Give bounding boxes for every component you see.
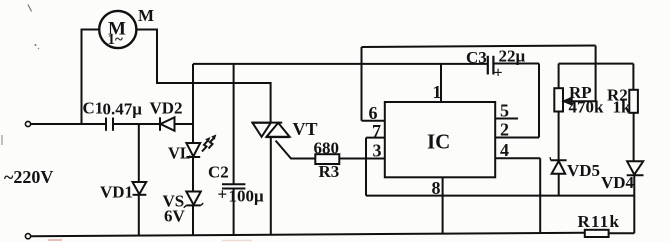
svg-text:R11k: R11k xyxy=(578,212,621,231)
svg-text:7: 7 xyxy=(372,121,381,141)
svg-text:22μ: 22μ xyxy=(499,47,526,66)
svg-text:3: 3 xyxy=(373,141,382,161)
svg-text:IC: IC xyxy=(427,130,450,154)
svg-text:VD5: VD5 xyxy=(567,161,600,180)
svg-text:5: 5 xyxy=(500,101,509,121)
svg-text:+: + xyxy=(218,185,228,204)
svg-text:1~: 1~ xyxy=(108,32,124,48)
svg-text:VL: VL xyxy=(168,144,191,163)
svg-text:8: 8 xyxy=(432,178,441,198)
svg-text:~220V: ~220V xyxy=(4,167,53,187)
svg-text:0.47μ: 0.47μ xyxy=(103,100,143,119)
svg-text:C1: C1 xyxy=(83,99,104,118)
svg-text:6: 6 xyxy=(369,103,378,123)
svg-text:680: 680 xyxy=(314,139,340,158)
svg-text:4: 4 xyxy=(500,140,509,160)
svg-text:VD4: VD4 xyxy=(601,173,635,192)
svg-text:M: M xyxy=(138,6,154,25)
svg-text:C3: C3 xyxy=(466,48,487,67)
svg-text:VT: VT xyxy=(293,119,318,139)
svg-text:+: + xyxy=(494,65,503,82)
svg-text:1k: 1k xyxy=(613,98,632,117)
svg-text:R3: R3 xyxy=(319,162,340,181)
svg-text:1: 1 xyxy=(433,82,442,102)
svg-text:6V: 6V xyxy=(164,207,186,226)
svg-text:2: 2 xyxy=(500,119,509,139)
svg-text:470k: 470k xyxy=(569,98,605,117)
svg-text:100μ: 100μ xyxy=(229,187,265,206)
svg-text:C2: C2 xyxy=(208,163,229,182)
svg-text:VD2: VD2 xyxy=(150,99,183,118)
svg-text:VD1: VD1 xyxy=(100,183,133,202)
